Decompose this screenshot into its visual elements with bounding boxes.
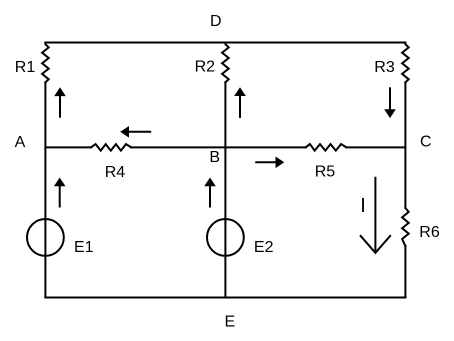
svg-text:R3: R3 [374, 59, 395, 76]
svg-text:R5: R5 [315, 163, 336, 180]
svg-text:R1: R1 [15, 59, 36, 76]
arrow up on R2 branch [239, 95, 241, 118]
svg-text:A: A [15, 134, 26, 151]
wire left vertical below R1 [44, 82, 46, 297]
arrow up above E2 [209, 185, 211, 208]
resistor R2 [222, 42, 229, 82]
svg-text:C: C [420, 134, 432, 151]
resistor R4 [91, 144, 131, 151]
resistor R1 [42, 42, 49, 82]
svg-text:R4: R4 [105, 164, 126, 181]
arrow left above R4 [129, 131, 151, 133]
wire middle horizontal A to R4 [45, 146, 91, 148]
wire right vertical below R6 [404, 246, 406, 297]
source E2 [207, 219, 244, 256]
wire bottom: E rail [45, 296, 405, 298]
arrow up on R1 branch [59, 95, 61, 118]
arrow I current open head [374, 177, 376, 253]
svg-text:E: E [225, 314, 236, 331]
wire middle horizontal R4 to R5 through B [131, 146, 306, 148]
source E1 [27, 219, 64, 256]
resistor R3 [402, 42, 409, 82]
wire right vertical between R3 and R6 [404, 82, 406, 208]
svg-text:R6: R6 [419, 224, 440, 241]
svg-text:E2: E2 [254, 239, 274, 256]
arrow down on R3 branch [389, 87, 391, 110]
wire middle horizontal R5 to C [346, 146, 405, 148]
resistor R5 [306, 144, 347, 151]
arrow up above E1 [59, 185, 61, 208]
svg-text:B: B [209, 149, 220, 166]
svg-text:R2: R2 [195, 59, 216, 76]
svg-text:I: I [360, 195, 366, 217]
wire middle vertical below R2 [224, 82, 226, 297]
svg-text:D: D [210, 13, 222, 30]
svg-text:E1: E1 [74, 239, 94, 256]
arrow right below B [255, 161, 277, 163]
wire top: D rail [45, 41, 405, 43]
resistor R6 [402, 208, 409, 246]
